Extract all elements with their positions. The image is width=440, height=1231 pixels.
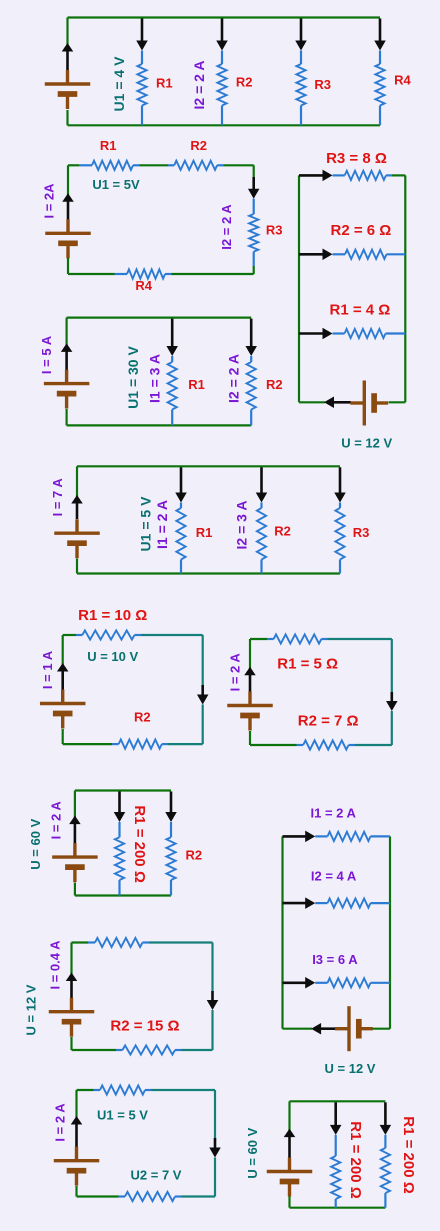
current arrow I (up) of C2 (67, 200, 70, 220)
wire C9 right (389, 836, 391, 1028)
battery of C7 (248, 692, 251, 706)
wire C6 top-left segment (63, 634, 76, 636)
wire C4 top (67, 317, 252, 319)
current arrow I (up) of C12 (288, 1135, 291, 1157)
resistor R4 of C1 (379, 51, 381, 65)
current arrow I (up) of C8 (74, 822, 77, 844)
resistor R1 of C5 (180, 503, 182, 509)
svg-text:U = 10 V: U = 10 V (87, 649, 138, 664)
resistor R2 of C1 (221, 51, 223, 65)
wire C6 left upper segment (62, 635, 64, 668)
wire C4 left lower segment (65, 409, 67, 425)
svg-text:R2: R2 (266, 377, 283, 392)
svg-text:I = 7 A: I = 7 A (50, 478, 65, 517)
svg-text:R2 = 15 Ω: R2 = 15 Ω (110, 1018, 179, 1035)
wire C5 bottom (77, 572, 340, 574)
resistor R1 of C10 (88, 941, 95, 943)
current arrow (down) on C11 right wire (214, 1138, 217, 1150)
svg-text:R2: R2 (134, 709, 151, 724)
current arrow (down) into second R1 of C12 (384, 1102, 387, 1127)
wire C7 left upper segment (249, 639, 251, 671)
svg-text:R3: R3 (314, 77, 331, 92)
resistor R1 of C2 (79, 164, 92, 166)
wire C6 right lower segment (202, 705, 204, 745)
resistor R1 of C3 (333, 332, 345, 334)
svg-text:U1 = 5 V: U1 = 5 V (138, 496, 154, 552)
wire C3 top-right segment (392, 174, 405, 176)
svg-text:I = 5 A: I = 5 A (39, 335, 54, 374)
svg-text:U1 = 5 V: U1 = 5 V (97, 1108, 148, 1123)
battery U of C9 (335, 1027, 349, 1030)
wire C9 bottom-left segment (283, 1028, 313, 1030)
resistor R1 of C4 (171, 356, 173, 362)
wire C3 right (404, 175, 406, 402)
svg-text:R2 = 6 Ω: R2 = 6 Ω (330, 222, 391, 239)
wire C2 bottom-right segment (172, 273, 254, 275)
wire C1 left upper segment (66, 18, 68, 49)
svg-text:U1 = 4 V: U1 = 4 V (111, 56, 127, 112)
wire C11 left lower segment (75, 1186, 77, 1197)
wire C7 left lower segment (249, 731, 251, 745)
wire C10 right lower segment (211, 1010, 213, 1050)
current arrow (down) into R3 of C1 (300, 19, 303, 43)
wire C1 left lower segment (66, 110, 68, 125)
resistor R1 of C6 (76, 634, 82, 636)
wire C8 bottom (75, 894, 171, 896)
svg-text:R2: R2 (236, 75, 253, 90)
wire C6 bottom-right segment (168, 743, 203, 745)
current arrow (down) into R2 of C5 (260, 467, 263, 494)
wire C8 top (75, 789, 171, 791)
wire C10 top-left segment (72, 941, 89, 943)
wire C2 top-right segment (223, 164, 254, 166)
wire C10 right upper segment (211, 943, 213, 993)
svg-text:R2: R2 (190, 138, 207, 153)
svg-text:U1 = 30 V: U1 = 30 V (125, 346, 141, 409)
resistor R1 of C7 (267, 638, 274, 640)
svg-text:I2 = 2 A: I2 = 2 A (225, 354, 241, 403)
svg-text:U1 = 5V: U1 = 5V (92, 177, 140, 192)
svg-text:I2 = 2 A: I2 = 2 A (219, 204, 234, 250)
svg-text:R3 = 8 Ω: R3 = 8 Ω (326, 150, 387, 167)
current arrow (down) on C10 right wire (211, 991, 214, 1002)
svg-text:R2 = 7 Ω: R2 = 7 Ω (298, 712, 359, 729)
resistor R2 of C3 (333, 253, 346, 255)
current arrow I2 (down) into R2 of C4 (250, 319, 253, 348)
current arrow (right) into R3 of C3 (299, 174, 325, 177)
wire C2 top-left segment (68, 164, 79, 166)
wire C7 top-left segment (250, 638, 267, 640)
svg-text:R1 = 10 Ω: R1 = 10 Ω (78, 607, 147, 624)
svg-text:U2 = 7 V: U2 = 7 V (131, 1168, 182, 1183)
current arrow (down) into R1 of C1 (141, 19, 144, 43)
current arrow I (up) of C4 (65, 350, 68, 370)
current arrow (down) into R1 of C8 (118, 792, 121, 815)
wire C10 left lower segment (70, 1037, 72, 1050)
wire C10 top-right segment (149, 941, 213, 943)
svg-text:R2: R2 (185, 848, 202, 863)
wire C6 right upper segment (202, 635, 204, 686)
wire C11 bottom-right segment (182, 1195, 216, 1197)
svg-text:R3: R3 (353, 525, 370, 540)
svg-text:R1: R1 (100, 138, 117, 153)
current arrow I (up) of C6 (61, 670, 64, 691)
current arrow I1 (right) of C9 (283, 835, 308, 838)
svg-text:U = 12 V: U = 12 V (341, 436, 392, 451)
wire C1 top (68, 16, 381, 18)
wire C4 bottom (67, 424, 252, 426)
resistor R2 of C11 (119, 1195, 126, 1197)
current arrow I2 (right) of C9 (283, 902, 308, 905)
svg-text:I2 = 3 A: I2 = 3 A (234, 501, 250, 550)
svg-text:U = 12 V: U = 12 V (24, 984, 39, 1035)
resistor R1 (first) of C12 (335, 1135, 337, 1156)
resistor branch 3 of C9 (315, 982, 327, 984)
wire C3 bottom-right segment (389, 401, 406, 403)
current arrow I (up) on C1 battery branch (66, 50, 69, 71)
current arrow (down) on C6 right wire (201, 685, 204, 697)
svg-text:R1: R1 (156, 76, 173, 91)
svg-text:I = 2A: I = 2A (41, 183, 56, 219)
svg-text:R1 = 4 Ω: R1 = 4 Ω (329, 302, 390, 319)
battery U of C3 (350, 401, 364, 404)
current arrow I (up) of C10 (70, 979, 73, 998)
current arrow (down) into R3 of C5 (339, 467, 342, 494)
wire C2 left lower segment (67, 258, 69, 274)
wire C8 left upper segment (74, 791, 76, 822)
wire C10 left upper segment (70, 943, 72, 978)
current arrow I (up) of C7 (249, 673, 252, 692)
resistor R2 of C10 (116, 1049, 123, 1051)
wire C7 right upper segment (391, 639, 393, 693)
current arrow I3 (right) of C9 (283, 981, 308, 984)
current arrow (down) into R4 of C1 (379, 19, 382, 43)
svg-text:R1 = 200 Ω: R1 = 200 Ω (347, 1121, 364, 1199)
svg-text:I = 2 A: I = 2 A (228, 653, 243, 692)
battery U1 of C2 (66, 219, 69, 233)
resistor R1 of C1 (141, 51, 143, 65)
svg-text:R1 = 200 Ω: R1 = 200 Ω (131, 805, 148, 883)
wire C7 bottom-left segment (250, 744, 297, 746)
wire C11 top-left segment (77, 1089, 94, 1091)
current arrow (right) into R2 of C3 (299, 253, 325, 256)
battery U of C12 (288, 1158, 291, 1172)
svg-text:I2 = 4 A: I2 = 4 A (311, 869, 357, 884)
svg-text:U = 60 V: U = 60 V (28, 818, 43, 869)
resistor R4 of C2 (115, 273, 128, 275)
wire C11 right lower segment (214, 1158, 216, 1197)
wire C2 right lower segment (253, 266, 255, 274)
svg-text:I = 1 A: I = 1 A (40, 650, 55, 689)
resistor R1 of C8 (118, 822, 120, 837)
battery of C6 (61, 690, 64, 704)
wire C11 bottom-left segment (77, 1195, 119, 1197)
wire C6 bottom-left segment (63, 743, 112, 745)
wire C8 left lower segment (74, 883, 76, 896)
svg-text:I3 = 6 A: I3 = 6 A (312, 952, 358, 967)
svg-text:I = 2 A: I = 2 A (48, 801, 63, 840)
current arrow (left) out of battery of C3 (332, 401, 351, 404)
resistor branch 1 of C9 (315, 835, 327, 837)
current arrow (down) into first R1 of C12 (334, 1102, 337, 1127)
resistor R2 of C6 (112, 743, 119, 745)
current arrow (down) into R2 of C1 (221, 19, 224, 43)
battery U of C8 (73, 843, 76, 857)
resistor R2 of C5 (260, 503, 262, 509)
resistor branch 2 of C9 (315, 902, 327, 904)
wire C3 bottom-left segment (299, 401, 325, 403)
svg-text:I = 2 A: I = 2 A (53, 1103, 68, 1142)
wire C6 top-right segment (141, 634, 203, 636)
resistor R3 of C1 (300, 51, 302, 65)
current arrow (down) into R1 of C5 (180, 467, 183, 494)
svg-text:R1: R1 (188, 377, 205, 392)
wire C3 left (298, 175, 300, 402)
current arrow I2 (down) of C2 (252, 177, 255, 191)
resistor R1 of C11 (94, 1089, 101, 1091)
svg-text:R1: R1 (196, 525, 213, 540)
svg-text:I1 = 3 A: I1 = 3 A (147, 354, 163, 403)
wire C12 left upper segment (288, 1101, 290, 1133)
wire C9 bottom-right segment (373, 1028, 391, 1030)
wire C11 left upper segment (75, 1090, 77, 1121)
resistor R1 (second) of C12 (384, 1135, 386, 1148)
wire C1 bottom (68, 124, 381, 126)
svg-text:U = 60 V: U = 60 V (245, 1127, 260, 1178)
wire C6 left lower segment (62, 729, 64, 744)
svg-text:R4: R4 (394, 73, 411, 88)
battery U1 of C1 (66, 70, 69, 84)
wire C7 bottom-right segment (355, 744, 392, 746)
svg-text:U = 12 V: U = 12 V (325, 1061, 376, 1076)
battery U of C10 (70, 998, 73, 1012)
svg-text:R3: R3 (266, 223, 283, 238)
resistor R2 of C2 (168, 164, 174, 166)
wire C11 right upper segment (214, 1090, 216, 1139)
wire C4 left upper segment (65, 318, 67, 350)
wire C7 right lower segment (391, 711, 393, 745)
wire C11 top-right segment (152, 1089, 216, 1091)
wire C2 top-middle segment (140, 164, 169, 166)
battery U1 of C5 (75, 519, 78, 533)
current arrow (down) into R2 of C8 (170, 792, 173, 815)
current arrow (left) out of battery of C9 (319, 1027, 344, 1030)
resistor R3 of C5 (339, 503, 341, 509)
svg-text:I = 0.4 A: I = 0.4 A (48, 940, 63, 990)
wire C12 bottom (290, 1207, 386, 1209)
resistor R2 of C8 (170, 822, 172, 837)
wire C10 bottom-right segment (182, 1049, 213, 1051)
svg-text:R2: R2 (274, 524, 291, 539)
resistor R3 of C2 (253, 199, 255, 214)
wire C10 bottom-left segment (72, 1049, 117, 1051)
svg-text:I1 = 2 A: I1 = 2 A (310, 806, 356, 821)
svg-text:I2 = 2 A: I2 = 2 A (191, 61, 207, 110)
wire C5 left upper segment (76, 466, 78, 497)
resistor R2 of C4 (250, 356, 252, 362)
wire C12 left lower segment (288, 1197, 290, 1208)
current arrow I (up) of C11 (75, 1123, 78, 1148)
wire C5 left lower segment (76, 559, 78, 574)
battery U1 of C4 (65, 370, 68, 384)
wire C12 top (290, 1100, 386, 1102)
svg-text:R1 = 5 Ω: R1 = 5 Ω (277, 656, 338, 673)
current arrow I1 (down) into R1 of C4 (171, 319, 174, 348)
resistor R3 of C3 (333, 174, 345, 176)
svg-text:R1 = 200 Ω: R1 = 200 Ω (400, 1116, 417, 1194)
svg-text:I1 = 2 A: I1 = 2 A (154, 500, 170, 549)
current arrow (down) on C7 right wire (390, 692, 393, 703)
wire C5 top (77, 465, 340, 467)
svg-text:R4: R4 (135, 278, 152, 293)
wire C2 right upper segment (253, 165, 255, 178)
current arrow I (up) of C5 (76, 502, 79, 520)
wire C2 bottom-left segment (68, 273, 115, 275)
wire C9 left (281, 836, 283, 1028)
current arrow (right) into R1 of C3 (299, 332, 325, 335)
wire C2 left upper segment (67, 165, 69, 197)
battery of C11 (75, 1147, 78, 1161)
resistor R2 of C7 (297, 744, 304, 746)
wire C7 top-right segment (328, 638, 392, 640)
